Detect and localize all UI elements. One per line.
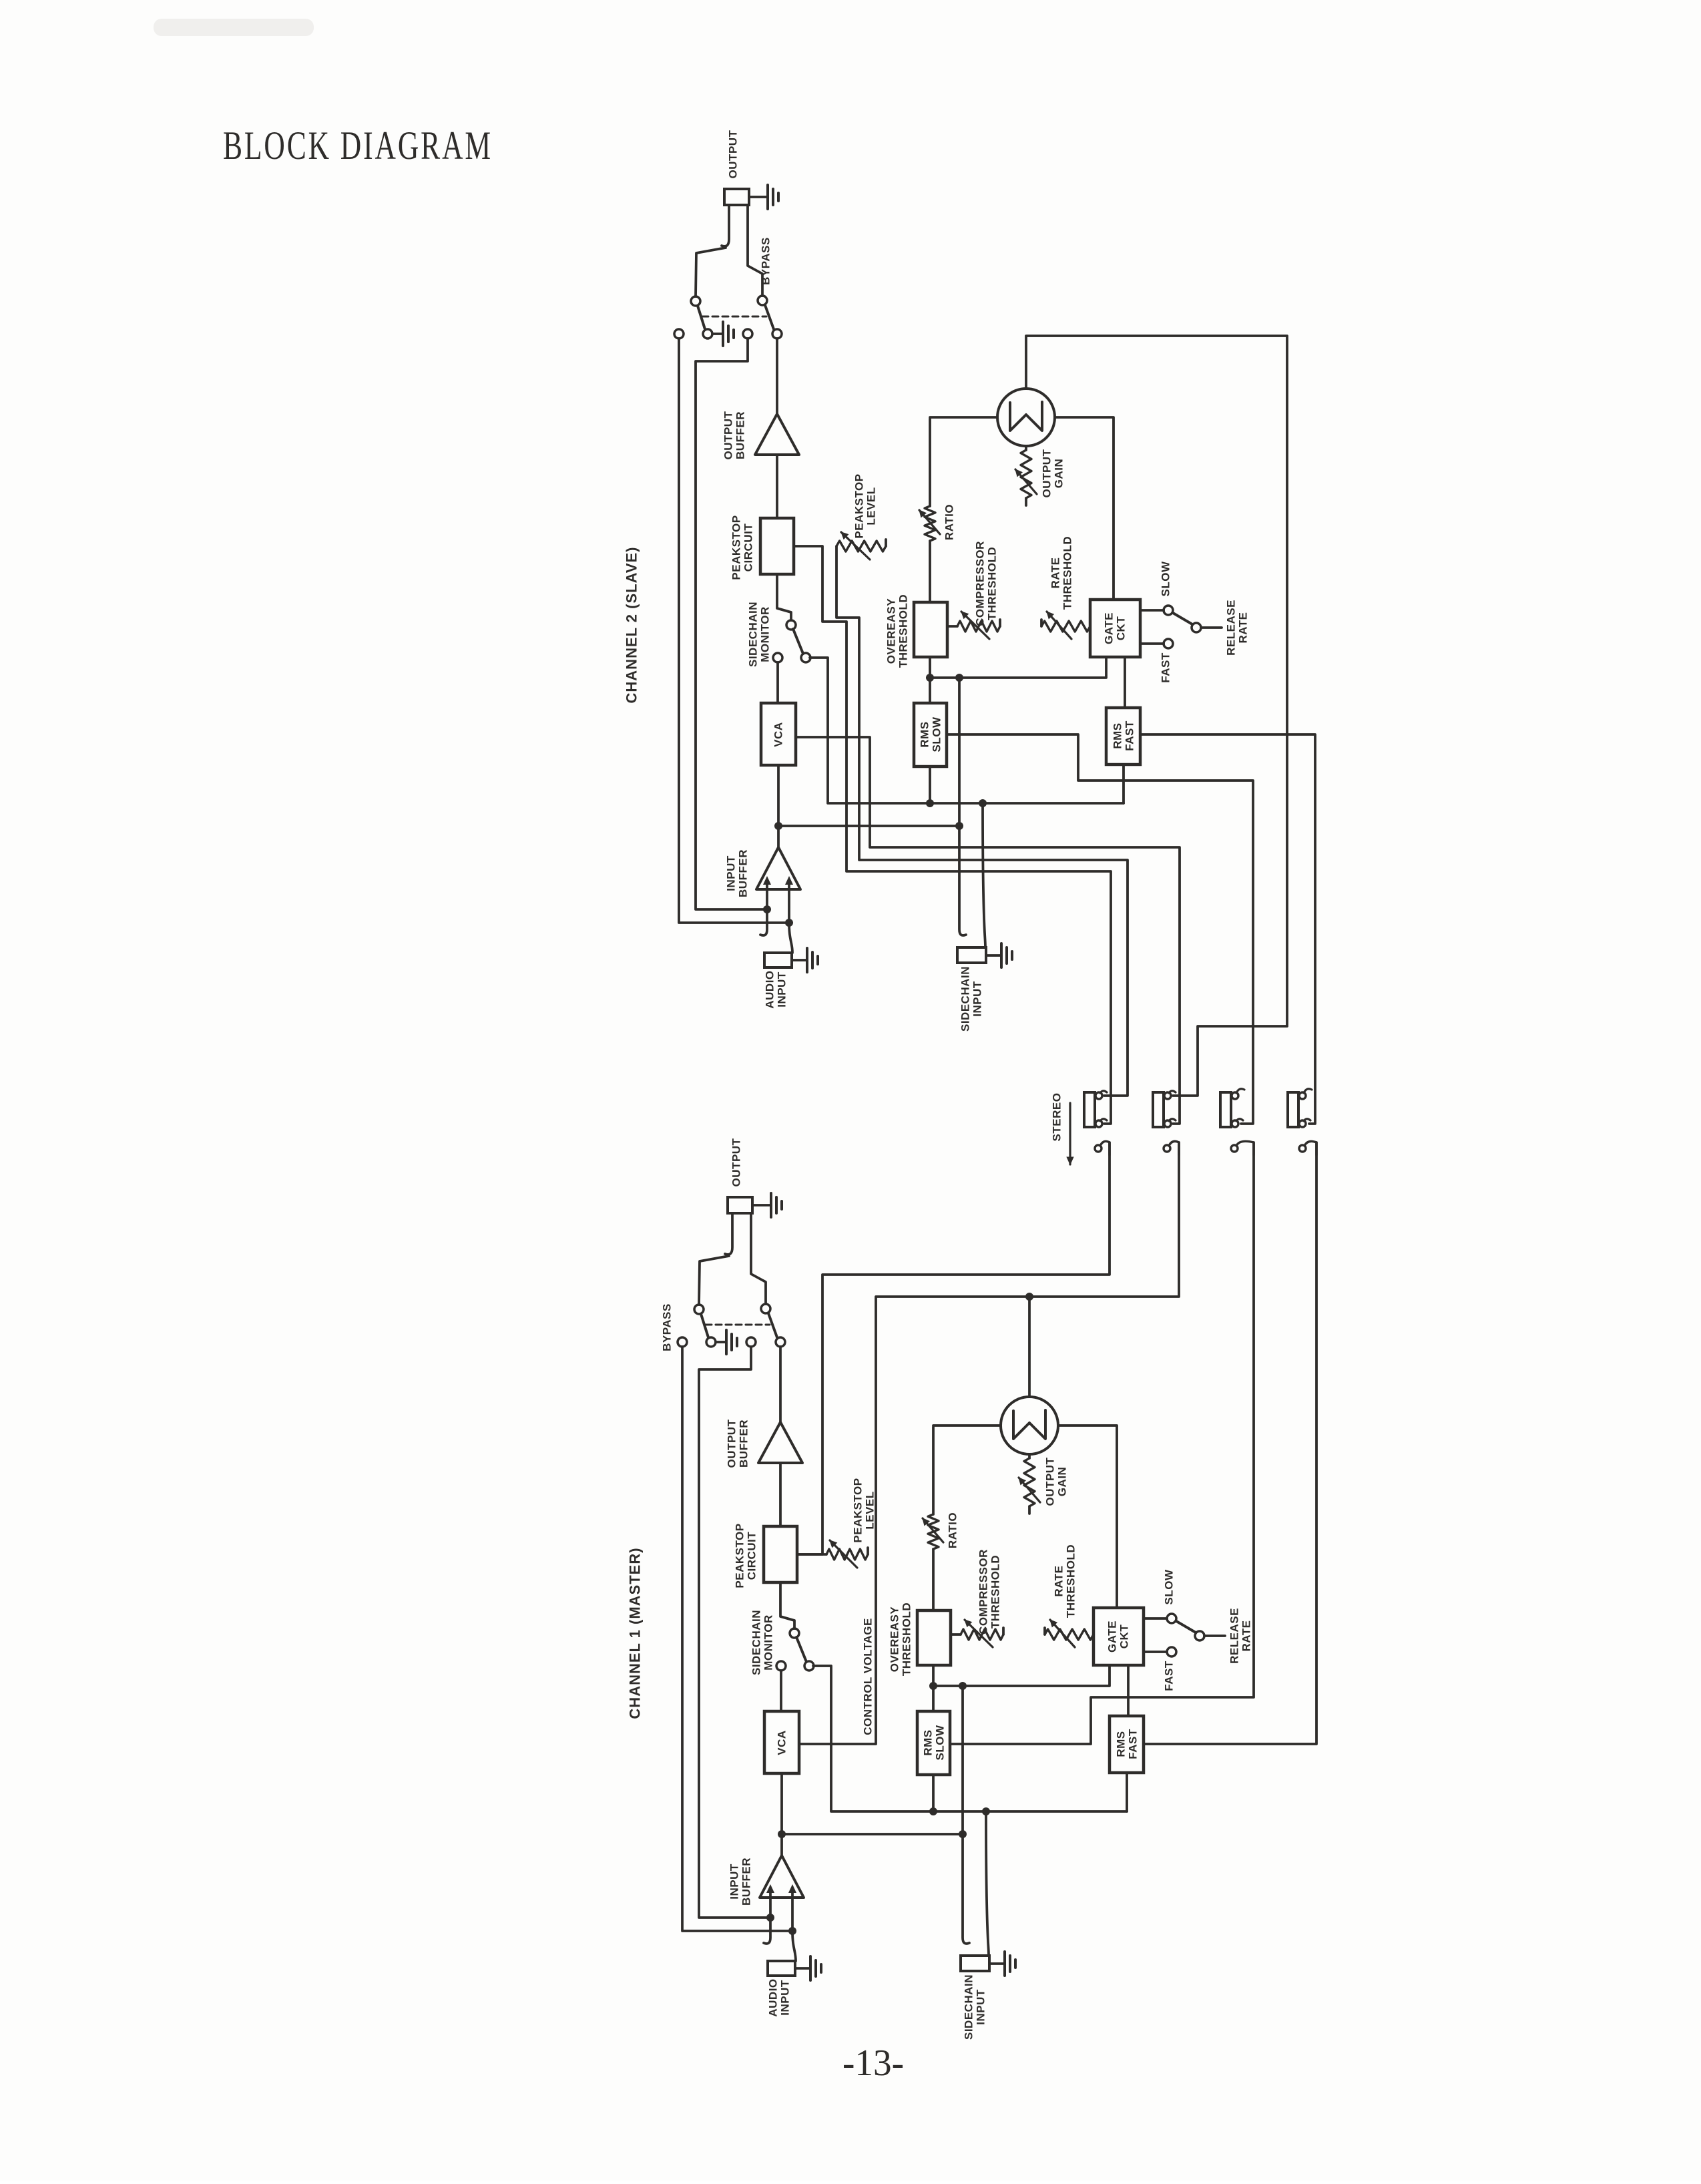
wire input buffer inverting input riser [788, 1884, 796, 1935]
label OUTPUT BUFFER [722, 411, 747, 459]
CH1 bypass switch (DPDT) [678, 1304, 785, 1347]
wire bypass to input-jack tip node [682, 1347, 792, 1931]
wire bypass to input-jack tip node [679, 339, 789, 923]
wire peakstop to sidechain monitor switch [780, 1582, 794, 1628]
wire overeasy to RMS SLOW / detector node [929, 1665, 937, 1711]
page number -13- [842, 2042, 904, 2084]
CH1 output jack ground [752, 1193, 782, 1217]
svg-text:OUTPUT: OUTPUT [1044, 1457, 1057, 1506]
label PEAKSTOP CIRCUIT [730, 515, 755, 580]
label FAST [1163, 1661, 1176, 1691]
svg-text:BUFFER: BUFFER [737, 849, 750, 897]
label CH2 BYPASS [760, 237, 772, 285]
CH2 gain reduction meter [997, 389, 1055, 446]
CH2 PEAKSTOP LEVEL pot [836, 532, 886, 560]
label INPUT BUFFER [728, 1858, 753, 1906]
svg-text:SIDECHAIN: SIDECHAIN [750, 1610, 763, 1675]
CH1/CH2 stereo link jack 3 [1220, 1089, 1244, 1127]
svg-text:RATIO: RATIO [943, 504, 956, 540]
wire stereo contact 2 to CH1 control voltage node [799, 1142, 1179, 1744]
svg-text:BUFFER: BUFFER [738, 1419, 750, 1468]
label INPUT BUFFER [725, 849, 750, 897]
svg-text:THRESHOLD: THRESHOLD [989, 1555, 1002, 1628]
wire meter right to gate circuit [1058, 1426, 1117, 1608]
CH1 sidechain monitor switch [776, 1628, 814, 1671]
wire meter right to gate circuit [1055, 417, 1114, 600]
wire stereo contact 3 to CH1 RMS SLOW output [950, 1142, 1254, 1744]
wire detector node to gate circuit input [933, 1665, 1110, 1686]
label OVEREASY THRESHOLD [889, 1602, 913, 1676]
svg-text:RMS: RMS [1112, 722, 1124, 748]
CH2 OUTPUT GAIN pot [1015, 446, 1037, 505]
CH1 audio input jack ground [795, 1956, 821, 1980]
label COMPRESSOR THRESHOLD [974, 541, 999, 626]
CH1 output buffer amplifier [758, 1422, 802, 1463]
CH1 RELEASE RATE switch [1167, 1614, 1225, 1657]
svg-text:FAST: FAST [1160, 652, 1172, 683]
label GATE CKT [1103, 612, 1128, 644]
svg-text:THRESHOLD: THRESHOLD [901, 1602, 913, 1676]
wire overeasy to RMS SLOW / detector node [926, 657, 934, 703]
svg-text:PEAKSTOP: PEAKSTOP [734, 1523, 746, 1588]
label OUTPUT GAIN [1044, 1457, 1069, 1506]
label COMPRESSOR THRESHOLD [977, 1549, 1002, 1634]
wire output jack sleeve contact to bypass switch [696, 248, 726, 296]
CH2 RATIO pot [919, 419, 940, 602]
svg-text:CHANNEL 2 (SLAVE): CHANNEL 2 (SLAVE) [624, 547, 640, 704]
svg-text:SLOW: SLOW [1163, 1569, 1176, 1604]
svg-text:PEAKSTOP: PEAKSTOP [730, 515, 743, 580]
wire output jack sleeve contact to bypass switch [699, 1256, 729, 1305]
label CHANNEL 1 (MASTER) [627, 1547, 644, 1719]
CH2 PEAKSTOP CIRCUIT block [760, 518, 794, 574]
svg-text:GAIN: GAIN [1056, 1467, 1069, 1497]
wire sidechain NC contact riser with hook [959, 1682, 969, 1944]
label VCA [772, 722, 785, 746]
CH2 GATE CKT block [1090, 600, 1140, 657]
CH2 sidechain jack ground [986, 943, 1012, 967]
CH1 PEAKSTOP CIRCUIT block [764, 1526, 797, 1582]
svg-text:THRESHOLD: THRESHOLD [897, 594, 910, 668]
svg-text:CKT: CKT [1115, 616, 1128, 641]
wire RMS FAST bottom to sidechain bus [1126, 1773, 1128, 1811]
CH2 AUDIO INPUT jack [764, 953, 792, 967]
svg-text:BYPASS: BYPASS [760, 237, 772, 285]
CH2 SIDECHAIN INPUT jack [957, 947, 986, 963]
STEREO arrow [1067, 1103, 1073, 1164]
svg-text:GATE: GATE [1103, 612, 1116, 644]
svg-text:CIRCUIT: CIRCUIT [746, 1532, 758, 1580]
svg-text:SLOW: SLOW [931, 716, 943, 752]
wire output buffer input [776, 455, 778, 518]
wire sidechain bus (monitor switch / RMS / sidechain jack) [810, 658, 1124, 807]
svg-text:-13-: -13- [842, 2042, 904, 2084]
svg-text:RMS: RMS [1115, 1731, 1128, 1757]
svg-text:RMS: RMS [922, 1729, 935, 1755]
wire RMS FAST bottom to sidechain bus [1122, 765, 1125, 803]
wire meter left to ratio line [933, 1424, 1001, 1427]
CH2 OUTPUT jack [722, 189, 749, 246]
label AUDIO INPUT [767, 1978, 792, 2016]
svg-text:SLOW: SLOW [934, 1725, 947, 1760]
label CH2 PEAKSTOP LEVEL [853, 473, 878, 538]
CH1/CH2 stereo link jack 1 [1084, 1091, 1107, 1127]
svg-text:BLOCK DIAGRAM: BLOCK DIAGRAM [223, 124, 493, 168]
wire VCA to input buffer (main audio node) [778, 1773, 786, 1855]
wire RMS SLOW bottom to sidechain bus [929, 767, 931, 803]
wire stereo contact 4 to CH1 RMS FAST output [1144, 1142, 1316, 1744]
wire input buffer noninverting input riser [763, 876, 771, 913]
svg-text:COMPRESSOR: COMPRESSOR [977, 1549, 990, 1634]
wire gate to FAST contact [1140, 642, 1164, 645]
CH1 OUTPUT jack [725, 1197, 752, 1255]
svg-text:THRESHOLD: THRESHOLD [986, 547, 999, 620]
label CONTROL VOLTAGE [862, 1618, 875, 1735]
label OUTPUT [727, 130, 740, 178]
CH1 RMS FAST block [1110, 1716, 1144, 1773]
CH2 bypass switch ground [712, 322, 734, 346]
CH1 sidechain jack ground [989, 1952, 1015, 1976]
CH2 RATE THRESHOLD pot [1041, 612, 1090, 639]
CH1 OUTPUT GAIN pot [1019, 1454, 1040, 1514]
svg-text:PEAKSTOP: PEAKSTOP [853, 473, 866, 538]
wire gate bottom to RMS FAST [1127, 1665, 1130, 1716]
wire output buffer input [779, 1463, 782, 1526]
CH1 stereo switch contact 3 [1231, 1141, 1254, 1155]
svg-text:AUDIO: AUDIO [767, 1978, 780, 2016]
wire gate to SLOW contact [1144, 1617, 1167, 1620]
CH2 bypass switch (DPDT) [674, 296, 782, 339]
label RMS SLOW [922, 1725, 947, 1760]
CH1 input buffer amplifier [760, 1855, 804, 1898]
wire monitor switch to VCA [776, 662, 779, 703]
CH1 gain reduction meter [1001, 1397, 1058, 1454]
svg-text:INPUT: INPUT [776, 971, 788, 1008]
svg-text:VCA: VCA [776, 1730, 788, 1755]
svg-text:STEREO: STEREO [1051, 1093, 1063, 1142]
svg-text:INPUT: INPUT [779, 1980, 792, 2016]
svg-text:INPUT: INPUT [975, 1989, 987, 2025]
wire sidechain NC contact riser with hook [955, 674, 966, 935]
svg-text:OUTPUT: OUTPUT [727, 130, 740, 178]
svg-text:OUTPUT: OUTPUT [1041, 449, 1053, 497]
svg-text:FAST: FAST [1127, 1729, 1140, 1759]
label RATIO [943, 504, 956, 540]
wire audio jack NC contact hook [760, 909, 767, 935]
svg-text:FAST: FAST [1163, 1661, 1176, 1691]
label CH1 PEAKSTOP LEVEL [852, 1478, 877, 1542]
wire audio jack NC contact hook [764, 1918, 770, 1944]
svg-text:PEAKSTOP: PEAKSTOP [852, 1478, 865, 1542]
svg-text:CONTROL VOLTAGE: CONTROL VOLTAGE [862, 1618, 875, 1735]
label RATE THRESHOLD [1049, 536, 1074, 610]
CH1 SIDECHAIN INPUT jack [961, 1956, 989, 1971]
wire bypass switch to output buffer output [779, 1347, 782, 1422]
wire output jack tip to bypass switch [751, 1213, 766, 1304]
label OVEREASY THRESHOLD [885, 594, 910, 668]
wire audio jack tip riser [789, 923, 792, 953]
label OUTPUT GAIN [1041, 449, 1065, 497]
svg-text:RELEASE: RELEASE [1228, 1608, 1241, 1664]
CH1/CH2 stereo link jack 2 [1153, 1091, 1176, 1127]
scan smudge artefact [154, 19, 314, 36]
svg-text:RATE: RATE [1049, 557, 1062, 588]
svg-text:OUTPUT: OUTPUT [726, 1419, 738, 1468]
label RATE THRESHOLD [1053, 1544, 1077, 1618]
svg-text:RATE: RATE [1240, 1620, 1253, 1651]
wire bypass switch to output buffer output [776, 339, 778, 414]
CH2 input buffer amplifier [756, 847, 800, 889]
svg-text:INPUT: INPUT [971, 981, 984, 1017]
CH1/CH2 stereo link jack 4 [1288, 1089, 1312, 1127]
svg-text:SIDECHAIN: SIDECHAIN [963, 1974, 975, 2040]
wire CH2 RMS FAST output to stereo jack 4 [1140, 734, 1315, 1124]
wire main audio node to detector riser [782, 1830, 967, 1838]
wire CH2 VCA control port to link bus D [796, 737, 1180, 1124]
svg-text:RATE: RATE [1237, 612, 1250, 643]
label RMS FAST [1115, 1729, 1140, 1759]
svg-text:CIRCUIT: CIRCUIT [742, 523, 755, 572]
label PEAKSTOP CIRCUIT [734, 1523, 758, 1588]
wire sidechain jack tip riser [982, 1807, 990, 1956]
svg-text:MONITOR: MONITOR [762, 1614, 775, 1670]
label OUTPUT [730, 1138, 743, 1186]
label RATIO [947, 1512, 959, 1548]
label SIDECHAIN MONITOR [747, 602, 772, 667]
wire VCA to input buffer (main audio node) [774, 765, 782, 847]
CH1 RMS SLOW block [917, 1711, 950, 1775]
CH2 RELEASE RATE switch [1164, 606, 1222, 648]
label OUTPUT BUFFER [726, 1419, 750, 1468]
svg-text:INPUT: INPUT [728, 1864, 741, 1900]
svg-text:MONITOR: MONITOR [759, 606, 772, 662]
svg-text:BUFFER: BUFFER [734, 411, 747, 459]
CH1 stereo switch contact 2 [1164, 1141, 1179, 1155]
CH1 GATE CKT block [1093, 1608, 1144, 1665]
label RMS FAST [1112, 720, 1136, 751]
CH2 VCA block [761, 703, 796, 765]
svg-text:CHANNEL 1 (MASTER): CHANNEL 1 (MASTER) [627, 1547, 644, 1719]
CH2 output jack ground [749, 185, 778, 209]
CH1 bypass switch ground [716, 1330, 737, 1354]
wire meter left to ratio line [930, 416, 997, 419]
svg-text:GATE: GATE [1106, 1620, 1119, 1653]
wire stereo contact 1 to CH1 peakstop output [797, 1142, 1110, 1554]
svg-text:AUDIO: AUDIO [764, 970, 776, 1008]
CH2 RMS SLOW block [914, 703, 947, 767]
label SLOW [1160, 561, 1172, 596]
CH2 output buffer amplifier [755, 414, 799, 455]
label AUDIO INPUT [764, 970, 788, 1008]
label SLOW [1163, 1569, 1176, 1604]
CH1 COMPRESSOR THRESHOLD pot [951, 1620, 1003, 1647]
wire output jack tip to bypass switch [748, 205, 762, 296]
svg-text:FAST: FAST [1124, 720, 1136, 751]
wire main audio node to detector riser [778, 822, 963, 830]
wire monitor switch to VCA [780, 1671, 782, 1711]
svg-text:LEVEL: LEVEL [864, 1491, 877, 1529]
svg-text:BYPASS: BYPASS [661, 1303, 674, 1351]
CH1 stereo switch contact 1 [1095, 1141, 1110, 1155]
svg-text:RATE: RATE [1053, 1565, 1065, 1596]
wire sidechain jack tip riser [979, 799, 987, 947]
page title BLOCK DIAGRAM [223, 124, 493, 168]
CH1 RATIO pot [923, 1427, 943, 1610]
svg-text:OUTPUT: OUTPUT [730, 1138, 743, 1186]
svg-text:VCA: VCA [772, 722, 785, 746]
CH2 sidechain monitor switch [773, 620, 810, 662]
CH1 VCA block [764, 1711, 799, 1773]
svg-text:INPUT: INPUT [725, 855, 738, 891]
svg-text:RATIO: RATIO [947, 1512, 959, 1548]
CH1 RATE THRESHOLD pot [1045, 1620, 1093, 1647]
wire RMS SLOW bottom to sidechain bus [932, 1775, 935, 1811]
CH2 COMPRESSOR THRESHOLD pot [947, 612, 1000, 639]
label RMS SLOW [919, 716, 943, 752]
wire gate to FAST contact [1144, 1651, 1167, 1653]
CH1 OVEREASY THRESHOLD block [917, 1610, 951, 1665]
label CH1 BYPASS [661, 1303, 674, 1351]
svg-text:OVEREASY: OVEREASY [889, 1606, 901, 1673]
CH1 AUDIO INPUT jack [768, 1961, 795, 1976]
CH2 OVEREASY THRESHOLD block [914, 602, 947, 657]
wire bypass to input buffer node [699, 1347, 770, 1918]
wire bypass to input buffer node [696, 339, 767, 909]
label FAST [1160, 652, 1172, 683]
wire gate bottom to RMS FAST [1124, 657, 1126, 708]
wire CH2 peakstop circuit output to link bus F [794, 546, 1111, 1124]
label GATE CKT [1106, 1620, 1131, 1653]
wire sidechain bus (monitor switch / RMS / sidechain jack) [813, 1666, 1127, 1815]
svg-text:BUFFER: BUFFER [740, 1858, 753, 1906]
CH1 PEAKSTOP LEVEL pot (inline) [797, 1540, 868, 1568]
label SIDECHAIN MONITOR [750, 1610, 775, 1675]
wire gate to SLOW contact [1140, 609, 1164, 612]
svg-text:THRESHOLD: THRESHOLD [1065, 1544, 1077, 1618]
wire CH2 meter node loop to stereo jack 2 tip [1026, 336, 1287, 1096]
svg-text:GAIN: GAIN [1053, 459, 1065, 489]
svg-text:COMPRESSOR: COMPRESSOR [974, 541, 987, 626]
svg-text:SIDECHAIN: SIDECHAIN [747, 602, 760, 667]
label VCA [776, 1730, 788, 1755]
wire detector node to gate circuit input [930, 657, 1106, 678]
svg-text:SIDECHAIN: SIDECHAIN [959, 966, 972, 1032]
CH2 RMS FAST block [1106, 708, 1140, 765]
label RELEASE RATE [1225, 600, 1250, 656]
label RELEASE RATE [1228, 1608, 1253, 1664]
wire CH2 RMS SLOW output to stereo jack 3 [947, 734, 1253, 1124]
label SIDECHAIN INPUT [963, 1974, 987, 2040]
label SIDECHAIN INPUT [959, 966, 984, 1032]
svg-text:RELEASE: RELEASE [1225, 600, 1238, 656]
svg-text:SLOW: SLOW [1160, 561, 1172, 596]
svg-text:THRESHOLD: THRESHOLD [1061, 536, 1074, 610]
svg-text:OVEREASY: OVEREASY [885, 598, 898, 664]
wire audio jack tip riser [792, 1931, 796, 1961]
wire input buffer noninverting input riser [766, 1884, 774, 1922]
CH1 stereo switch contact 4 [1299, 1141, 1316, 1155]
label STEREO [1051, 1093, 1063, 1142]
svg-text:RMS: RMS [919, 721, 931, 747]
svg-text:CKT: CKT [1118, 1624, 1131, 1649]
svg-text:OUTPUT: OUTPUT [722, 411, 735, 459]
wire CH1 meter to control voltage bus [1028, 1297, 1031, 1397]
svg-text:LEVEL: LEVEL [865, 487, 878, 525]
wire CH2 peakstop level pot left leg to link bus E [836, 546, 1128, 1096]
label CHANNEL 2 (SLAVE) [624, 547, 640, 704]
wire peakstop to sidechain monitor switch [777, 574, 791, 620]
wire input buffer inverting input riser [785, 876, 793, 927]
CH2 audio input jack ground [792, 948, 818, 972]
